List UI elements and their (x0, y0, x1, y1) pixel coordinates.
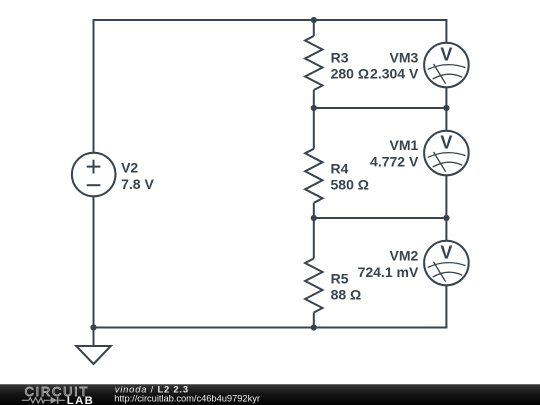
node junction R4/R5 (311, 215, 317, 221)
voltmeter VM2 (424, 241, 469, 286)
voltage source V2 (72, 153, 116, 197)
resistor R3 (305, 36, 322, 90)
svg-text:R5: R5 (331, 271, 349, 287)
node top junction (311, 17, 317, 23)
svg-text:VM1: VM1 (390, 137, 419, 153)
node bottom junction (311, 324, 317, 330)
wire R4 bottom lead (313, 203, 315, 218)
svg-text:http://circuitlab.com/c46b4u97: http://circuitlab.com/c46b4u9792kyr (114, 392, 260, 403)
svg-text:LAB: LAB (67, 395, 94, 405)
wire left vertical (top rail to V2) (93, 20, 95, 153)
ground (76, 328, 111, 365)
wire VM3 top lead (445, 20, 447, 43)
svg-text:R3: R3 (331, 50, 349, 66)
wire VM1 bottom lead (445, 175, 447, 218)
wire mid rail 2 (314, 217, 447, 219)
label R4 580 Ω (331, 161, 369, 193)
label R3 280 Ω (331, 50, 369, 82)
footer bar (0, 384, 540, 405)
svg-text:V: V (440, 243, 452, 263)
svg-text:2.304 V: 2.304 V (370, 65, 419, 81)
svg-text:VM2: VM2 (390, 248, 419, 264)
svg-text:VM3: VM3 (390, 50, 419, 66)
node junction R3/R4 (311, 105, 317, 111)
svg-text:V2: V2 (121, 159, 138, 175)
svg-text:88 Ω: 88 Ω (331, 286, 362, 302)
label VM3 2.304 V (370, 50, 419, 82)
wire VM1 top lead (445, 108, 447, 131)
svg-text:R4: R4 (331, 161, 349, 177)
label VM2 724.1 mV (358, 248, 419, 280)
wire VM3 bottom lead (445, 87, 447, 108)
label R5 88 Ω (331, 271, 362, 303)
label V2 7.8 V (121, 159, 154, 192)
wire top rail (94, 19, 447, 21)
wire R3 top lead (313, 20, 315, 36)
svg-text:V: V (440, 45, 452, 65)
svg-text:580 Ω: 580 Ω (331, 176, 369, 192)
wire mid rail 1 (314, 107, 447, 109)
resistor R5 (305, 259, 322, 313)
node junction VM3/VM1 (443, 105, 449, 111)
label VM1 4.772 V (370, 137, 419, 170)
svg-text:280 Ω: 280 Ω (331, 65, 369, 81)
wire R5 top lead (313, 218, 315, 259)
wire bottom rail (94, 327, 447, 329)
node junction VM1/VM2 (443, 215, 449, 221)
svg-text:4.772 V: 4.772 V (370, 154, 419, 170)
voltmeter VM1 (424, 131, 469, 176)
wire VM2 top lead (445, 218, 447, 241)
wire VM2 bottom lead (445, 285, 447, 327)
svg-text:7.8 V: 7.8 V (121, 176, 154, 192)
wire R3 bottom lead (313, 90, 315, 108)
footer url text (114, 392, 260, 403)
wire left vertical (V2 to bottom rail) (93, 196, 95, 327)
svg-text:724.1 mV: 724.1 mV (358, 264, 419, 280)
footer title text (115, 384, 189, 395)
resistor R4 (305, 149, 322, 203)
voltmeter VM3 (424, 43, 469, 88)
node ground junction (90, 324, 96, 330)
wire R5 bottom lead (313, 313, 315, 328)
svg-text:V: V (440, 133, 452, 153)
wire R4 top lead (313, 108, 315, 149)
CircuitLab logo (22, 384, 94, 405)
